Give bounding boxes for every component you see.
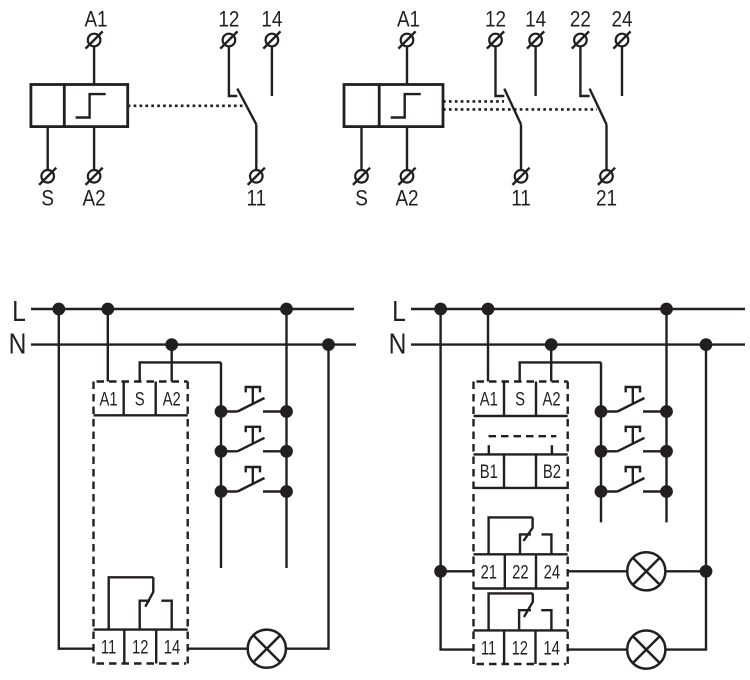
- lamp E2: [627, 631, 665, 669]
- svg-text:A1: A1: [84, 7, 107, 32]
- dotted mechanical link lower: [443, 108, 597, 111]
- rail L: [411, 308, 745, 310]
- label L: [12, 295, 26, 327]
- push button S3: [221, 467, 287, 492]
- push button S3: [601, 467, 667, 492]
- internal contact 12 foot: [140, 601, 150, 630]
- svg-text:11: 11: [511, 186, 531, 211]
- junction left-21: [435, 566, 445, 576]
- label 24: [544, 562, 560, 583]
- label 12: [132, 637, 148, 658]
- wire N to lamp: [286, 345, 329, 649]
- wire L to terminal 11: [59, 309, 94, 649]
- wire 21: [605, 124, 607, 169]
- wire S: [47, 127, 49, 170]
- label A1: [480, 389, 498, 410]
- push button S1: [601, 387, 667, 412]
- rail L: [31, 308, 354, 310]
- terminal 12: [487, 31, 504, 48]
- label 12: [218, 7, 239, 32]
- junction S1 right: [661, 406, 671, 416]
- terminal row 21 22 24: [474, 554, 568, 588]
- junction N-lamp: [323, 339, 333, 349]
- label 11: [246, 186, 266, 211]
- label A2: [543, 389, 561, 410]
- label A2: [83, 186, 106, 211]
- device dashed box: [474, 382, 568, 665]
- wire N to lamp2: [665, 345, 706, 650]
- terminal A1: [398, 31, 415, 48]
- label A2: [395, 186, 418, 211]
- internal contact blade 21: [524, 517, 533, 541]
- terminal A2: [86, 168, 103, 185]
- junction L-left: [435, 304, 445, 314]
- internal contact common 21: [489, 517, 533, 554]
- label 22: [512, 562, 528, 583]
- wire left to 21: [441, 570, 474, 572]
- svg-text:B2: B2: [543, 461, 561, 482]
- svg-text:14: 14: [543, 638, 559, 659]
- relay box U2: [344, 85, 443, 127]
- terminal A2: [398, 168, 415, 185]
- svg-text:12: 12: [485, 7, 506, 32]
- svg-text:L: L: [392, 295, 406, 327]
- junction L-buttons: [281, 304, 291, 314]
- svg-text:A1: A1: [100, 389, 118, 410]
- junction N-lamps: [701, 339, 711, 349]
- svg-text:24: 24: [544, 562, 560, 583]
- terminal 11: [248, 168, 265, 185]
- junction S2 left: [596, 446, 606, 456]
- svg-text:A1: A1: [480, 389, 498, 410]
- wire 14: [271, 47, 273, 96]
- wire 14: [534, 47, 536, 96]
- buttons left rail: [220, 362, 222, 568]
- rail N: [411, 343, 745, 345]
- step-function symbol: [391, 94, 421, 117]
- svg-text:11: 11: [101, 637, 116, 658]
- label 22: [570, 7, 591, 32]
- label A1: [84, 7, 107, 32]
- wire 24 to lamp1: [568, 570, 628, 572]
- wire L to A1: [487, 309, 489, 382]
- buttons right rail: [665, 309, 667, 522]
- contact blade 11-12: [504, 89, 521, 125]
- junction S3 right: [661, 486, 671, 496]
- internal contact common 11: [109, 577, 154, 629]
- label 12: [512, 638, 528, 659]
- junction S1 right: [281, 406, 291, 416]
- label N: [9, 328, 27, 360]
- terminal A1: [86, 31, 103, 48]
- junction S1 left: [596, 406, 606, 416]
- wire 14 to lamp: [188, 648, 248, 650]
- svg-text:S: S: [41, 186, 54, 211]
- wire A2: [406, 127, 408, 170]
- junction N-A2: [546, 339, 556, 349]
- label S: [355, 186, 368, 211]
- relay box U1: [31, 85, 128, 127]
- svg-text:B1: B1: [480, 461, 498, 482]
- junction S1 left: [216, 406, 226, 416]
- wire 24: [621, 47, 623, 96]
- svg-text:S: S: [355, 186, 368, 211]
- step-function symbol: [76, 94, 106, 117]
- terminal 24: [613, 31, 630, 48]
- terminal S: [39, 168, 56, 185]
- junction S2 right: [661, 446, 671, 456]
- junction S3 left: [216, 486, 226, 496]
- svg-text:12: 12: [218, 7, 239, 32]
- terminal row A1 S A2: [94, 382, 188, 416]
- wire A1: [406, 47, 408, 85]
- device dashed box: [94, 382, 188, 664]
- svg-text:14: 14: [525, 7, 546, 32]
- dotted mechanical link upper: [443, 100, 504, 103]
- terminal 12: [220, 31, 237, 48]
- svg-text:A1: A1: [397, 7, 420, 32]
- label A2: [163, 389, 181, 410]
- terminal row 11 12 14: [474, 630, 568, 664]
- svg-text:A2: A2: [543, 389, 561, 410]
- label 12: [485, 7, 506, 32]
- label B2: [543, 461, 561, 482]
- label 14: [164, 637, 180, 658]
- junction L-A1: [103, 304, 113, 314]
- svg-text:14: 14: [164, 637, 180, 658]
- wire 12: [496, 47, 505, 96]
- wire A2: [93, 127, 95, 170]
- label L: [392, 295, 406, 327]
- wire 11: [520, 124, 522, 169]
- svg-text:21: 21: [596, 186, 617, 211]
- label S: [135, 389, 145, 410]
- terminal 14: [263, 31, 280, 48]
- svg-text:22: 22: [570, 7, 591, 32]
- svg-text:S: S: [515, 389, 525, 410]
- label 11: [101, 637, 116, 658]
- label S: [41, 186, 54, 211]
- rail N: [31, 343, 356, 345]
- internal contact common 11: [489, 593, 533, 630]
- terminal 21: [598, 168, 615, 185]
- svg-text:12: 12: [512, 638, 528, 659]
- svg-text:N: N: [389, 328, 407, 360]
- wire 12: [229, 47, 237, 96]
- junction S2 left: [216, 446, 226, 456]
- stub B2: [551, 445, 553, 454]
- label B1: [480, 461, 498, 482]
- terminal S: [353, 168, 370, 185]
- label A1: [397, 7, 420, 32]
- lamp E1: [248, 630, 286, 668]
- label 11: [481, 638, 496, 659]
- svg-text:14: 14: [261, 7, 282, 32]
- svg-text:22: 22: [512, 562, 528, 583]
- wire N to A2: [170, 345, 172, 382]
- wire S to buttons: [140, 362, 221, 381]
- svg-text:S: S: [135, 389, 145, 410]
- label 21: [481, 562, 497, 583]
- svg-text:11: 11: [481, 638, 496, 659]
- junction S3 right: [281, 486, 291, 496]
- wire 11: [255, 124, 257, 169]
- junction N-A2: [167, 339, 177, 349]
- junction lamp1-N: [701, 566, 711, 576]
- terminal 22: [572, 31, 589, 48]
- label A1: [100, 389, 118, 410]
- lamp E1: [627, 552, 665, 590]
- junction S2 right: [281, 446, 291, 456]
- wire lamp1 to N-drop: [665, 570, 706, 572]
- push button S2: [601, 427, 667, 452]
- svg-text:A2: A2: [395, 186, 418, 211]
- svg-text:A2: A2: [163, 389, 181, 410]
- internal contact 12 foot: [519, 610, 531, 630]
- svg-text:12: 12: [132, 637, 148, 658]
- wire A1: [93, 47, 95, 85]
- label 14: [543, 638, 559, 659]
- wire L to A1: [107, 309, 109, 382]
- svg-text:21: 21: [481, 562, 497, 583]
- stub B1: [488, 445, 490, 454]
- label S: [515, 389, 525, 410]
- svg-text:N: N: [9, 328, 27, 360]
- push button S1: [221, 387, 287, 412]
- inner dashed separator: [489, 435, 557, 437]
- buttons left rail: [600, 362, 602, 522]
- label 14: [261, 7, 282, 32]
- push button S2: [221, 427, 287, 452]
- internal contact blade 11: [524, 593, 533, 617]
- junction L-left: [54, 304, 64, 314]
- terminal 11: [512, 168, 529, 185]
- buttons right rail: [285, 309, 287, 568]
- internal contact 22 foot: [520, 534, 531, 554]
- terminal 14: [527, 31, 544, 48]
- svg-text:A2: A2: [83, 186, 106, 211]
- wire 22: [580, 47, 589, 96]
- svg-text:24: 24: [611, 7, 632, 32]
- junction L-buttons: [661, 304, 671, 314]
- wire S: [360, 127, 362, 170]
- contact blade 21-22: [590, 89, 607, 125]
- dotted mechanical link: [128, 105, 243, 108]
- terminal row B1 B2: [474, 454, 568, 488]
- wire N to A2: [550, 345, 552, 382]
- wire S to buttons: [520, 362, 601, 381]
- internal contact blade: [145, 577, 153, 606]
- internal contact 14 foot: [161, 601, 171, 630]
- terminal row A1 S A2: [474, 382, 568, 417]
- junction S3 left: [596, 486, 606, 496]
- label N: [389, 328, 407, 360]
- internal contact 24 foot: [542, 534, 552, 554]
- wire L to terminal 11: [441, 309, 474, 650]
- internal contact 14 foot: [541, 610, 551, 630]
- label 14: [525, 7, 546, 32]
- label 11: [511, 186, 531, 211]
- label 21: [596, 186, 617, 211]
- label 24: [611, 7, 632, 32]
- wire 14 to lamp2: [568, 648, 628, 650]
- svg-text:11: 11: [246, 186, 266, 211]
- contact blade 11-12: [237, 89, 256, 125]
- terminal row 11 12 14: [94, 630, 188, 664]
- svg-text:L: L: [12, 295, 26, 327]
- junction L-A1: [483, 304, 493, 314]
